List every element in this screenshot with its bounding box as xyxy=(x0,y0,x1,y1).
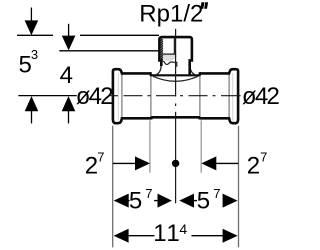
dim line A right part xyxy=(80,34,159,36)
saddle base line xyxy=(151,74,200,76)
vertical centerline lower xyxy=(175,112,177,204)
extension line socket depth right xyxy=(200,120,202,173)
step bottom right xyxy=(198,116,200,119)
step top right xyxy=(199,72,201,76)
row1 center dot xyxy=(172,160,179,167)
body bottom line xyxy=(152,116,200,119)
branch outline xyxy=(159,37,192,75)
row1 dim 2-7 right: arrow and tail xyxy=(201,156,216,170)
svg-text:ø42: ø42 xyxy=(76,83,114,110)
bead transition line right xyxy=(228,75,230,118)
bead shade line left xyxy=(117,73,119,121)
bead transition line left xyxy=(121,75,123,118)
socket depth line left xyxy=(150,77,152,117)
row2 right dim line xyxy=(194,200,198,202)
svg-text:11: 11 xyxy=(153,220,181,247)
arrow B down xyxy=(68,24,70,37)
thread runout wavy line xyxy=(163,61,177,67)
extension line left end xyxy=(112,126,114,248)
svg-text:2: 2 xyxy=(85,153,98,180)
svg-text:5: 5 xyxy=(197,187,210,214)
svg-text:3: 3 xyxy=(31,47,38,62)
svg-text:ø42: ø42 xyxy=(242,83,280,110)
row3 line right xyxy=(192,235,224,237)
svg-text:2: 2 xyxy=(247,153,260,180)
vertical centerline upper xyxy=(175,29,177,97)
row2 left dim arrow out xyxy=(114,194,129,208)
step top left xyxy=(150,72,152,76)
row2 right dim arrow in xyxy=(179,194,194,208)
fitting outline top left: end face, bead, socket top xyxy=(113,69,151,120)
row2 left dim arrow in xyxy=(158,194,172,208)
row3 arrow right xyxy=(223,229,238,243)
arrow A down xyxy=(30,8,32,22)
arrow A up xyxy=(31,111,33,123)
svg-text:7: 7 xyxy=(260,149,267,164)
vertical centerline dot xyxy=(175,104,177,107)
saddle arc xyxy=(153,76,198,81)
svg-text:4: 4 xyxy=(179,221,187,237)
bore bottom line xyxy=(163,53,177,55)
row2 left dim stub xyxy=(128,200,130,202)
row3 line left xyxy=(128,235,155,237)
svg-text:7: 7 xyxy=(213,186,220,201)
extension line right end xyxy=(238,126,240,248)
thread shade in branch xyxy=(162,55,176,62)
svg-text:5: 5 xyxy=(19,52,32,79)
thread inner line xyxy=(173,38,175,54)
svg-text:4: 4 xyxy=(60,62,73,89)
row3 dim 11-4 arrow left xyxy=(114,229,129,243)
svg-text:Rp1/2: Rp1/2 xyxy=(139,0,203,27)
double prime xyxy=(201,2,205,8)
fillet left xyxy=(155,65,162,76)
fitting outline bottom left: bead, socket bottom xyxy=(113,118,152,123)
fitting outline top right: socket top, bead, end face xyxy=(200,69,238,120)
extension line socket depth left xyxy=(149,120,151,173)
fillet right xyxy=(190,65,197,76)
dim line A (top of branch level) xyxy=(17,34,53,36)
dim line B (thread level) xyxy=(59,50,159,52)
arrow B up xyxy=(68,111,70,123)
step bottom left xyxy=(151,116,153,119)
thread hatch xyxy=(161,38,163,59)
svg-text:7: 7 xyxy=(97,149,104,164)
fitting outline bottom right: socket bottom, bead xyxy=(199,118,238,123)
row1 dim 2-7 left: tail and arrow xyxy=(113,162,136,164)
dim line C (center level, left) xyxy=(18,95,76,97)
row2 left dim line to center xyxy=(154,200,158,202)
row2 right dim arrow out xyxy=(223,194,238,208)
svg-text:7: 7 xyxy=(145,186,152,201)
bead shade line right xyxy=(232,73,234,121)
svg-text:5: 5 xyxy=(129,187,142,214)
horizontal centerline dash-dot xyxy=(110,95,240,97)
socket depth line right xyxy=(199,77,201,117)
